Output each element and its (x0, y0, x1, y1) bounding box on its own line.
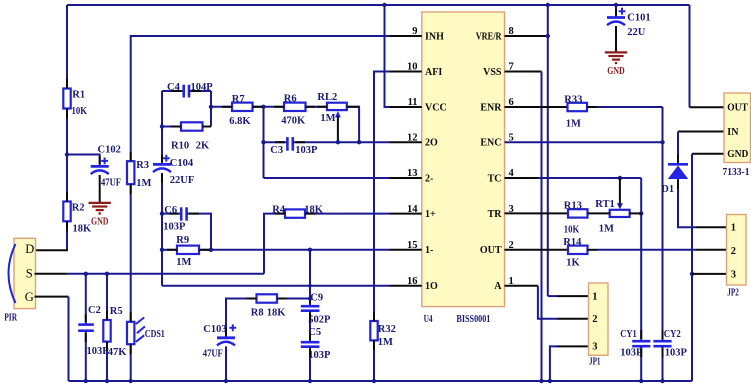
wire S net to R4 corner (68, 273, 264, 275)
svg-text:D: D (25, 242, 34, 256)
plus mark C101 (619, 8, 626, 15)
svg-text:502P: 502P (308, 314, 331, 325)
wire C6 node down to R9 (161, 214, 163, 250)
capacitor C6 (180, 207, 183, 220)
pin 12 stub (390, 141, 422, 143)
ground symbol below C101 (605, 51, 627, 53)
svg-text:VCC: VCC (425, 102, 447, 113)
capacitor CY1 (632, 340, 650, 343)
part 7133-1 regulator box (724, 93, 751, 163)
wire CY2 to ground rail (662, 346, 664, 381)
resistor R4 (285, 209, 305, 217)
svg-text:1M: 1M (176, 257, 191, 268)
wire 7133 OUT stub (690, 106, 725, 108)
svg-text:1O: 1O (425, 281, 438, 292)
svg-text:RT1: RT1 (595, 199, 614, 210)
svg-text:2K: 2K (196, 140, 210, 151)
svg-text:18K: 18K (267, 307, 287, 318)
svg-text:S: S (26, 267, 33, 281)
capacitor C104 (153, 163, 171, 166)
wire CDS1 to ground rail (130, 344, 132, 381)
node VSS ground (539, 379, 543, 383)
svg-text:1-: 1- (425, 245, 433, 256)
svg-text:R33: R33 (564, 94, 582, 105)
node V+ rail tap (546, 3, 550, 7)
svg-text:1M: 1M (599, 223, 614, 234)
svg-text:10: 10 (407, 62, 418, 73)
black component lead stubs overlay (171, 126, 181, 128)
node RT1 right (639, 211, 643, 215)
wire R33 to ENC node (597, 106, 663, 108)
wire R7R6 junction down to C3 (263, 107, 265, 178)
node TC wiper tap (618, 176, 622, 180)
capacitor C4 (182, 85, 185, 98)
node C6 left (160, 211, 164, 215)
node S/C2 (84, 272, 88, 276)
node CY1 ground (639, 379, 643, 383)
svg-text:10K: 10K (72, 106, 88, 117)
svg-text:JP2: JP2 (727, 287, 739, 298)
svg-text:1M: 1M (136, 178, 151, 189)
wire RT1 right terminal (630, 212, 642, 214)
svg-text:2: 2 (731, 246, 736, 257)
wire V+ rail right corner to 7133 OUT (689, 5, 691, 107)
svg-text:1M: 1M (320, 113, 335, 124)
svg-text:2O: 2O (425, 138, 438, 149)
node RL2 wiper / 2O (336, 140, 340, 144)
resistor R10 (181, 122, 203, 130)
wire VCC vertical to pin 11 (385, 5, 391, 107)
resistor R9 (177, 246, 199, 254)
wire R33 right stub (587, 106, 597, 108)
wire R5 to ground rail (106, 342, 108, 381)
wire ENC from pin 5 (505, 141, 663, 143)
svg-text:47K: 47K (108, 347, 128, 358)
node JP2 pin 3 tap (690, 272, 694, 276)
svg-text:IN: IN (727, 127, 739, 138)
wire JP2 pin 3 stub (692, 273, 727, 275)
wire C101 stub (615, 5, 617, 17)
svg-text:R9: R9 (176, 235, 189, 246)
svg-text:VRE/R: VRE/R (476, 31, 502, 42)
resistor R13 (568, 209, 588, 217)
wire C103 to ground rail (225, 346, 227, 381)
wire junction to C104 (161, 127, 163, 165)
wire TC net (538, 177, 641, 179)
wire C102 to ground (99, 175, 101, 202)
svg-text:12: 12 (407, 132, 418, 143)
svg-text:C103: C103 (203, 324, 226, 335)
wire 1- net to pin 15 (211, 249, 390, 251)
wire JP2 pin 1 stub (696, 226, 727, 228)
svg-text:13: 13 (407, 168, 418, 179)
svg-text:1M: 1M (378, 337, 393, 348)
svg-text:103P: 103P (295, 145, 318, 156)
svg-text:D1: D1 (661, 184, 674, 195)
node ENC junction (660, 140, 664, 144)
pin 10 stub (390, 71, 422, 73)
svg-text:ENR: ENR (480, 102, 502, 113)
svg-text:47UF: 47UF (203, 348, 223, 359)
wire R10 right (203, 126, 212, 128)
pin 11 stub (390, 106, 422, 108)
pin 14 stub (390, 213, 422, 215)
svg-text:GND: GND (727, 149, 748, 160)
wire AFI vertical (374, 72, 391, 322)
svg-text:R32: R32 (378, 324, 396, 335)
capacitor C3 (286, 137, 289, 151)
svg-text:CDS1: CDS1 (145, 329, 165, 340)
svg-text:22UF: 22UF (170, 175, 195, 186)
svg-text:R14: R14 (563, 237, 582, 248)
node R32 ground (372, 379, 376, 383)
capacitor C102 (91, 165, 109, 168)
wire 2- net to pin 13 (264, 177, 390, 179)
svg-text:OUT: OUT (727, 103, 748, 114)
wire JP1 pin 1 stub (557, 295, 589, 297)
capacitor C101 (607, 16, 625, 19)
node 1O / C9 crossing (308, 284, 312, 288)
svg-text:ENC: ENC (480, 138, 501, 149)
svg-text:G: G (25, 290, 34, 304)
pin 13 stub (390, 177, 422, 179)
svg-text:INH: INH (425, 31, 444, 42)
svg-text:2: 2 (592, 314, 597, 325)
connector JP1 box (589, 283, 609, 355)
wire TR to R13 (505, 212, 569, 214)
svg-text:C104: C104 (170, 158, 194, 169)
svg-text:14: 14 (407, 204, 418, 215)
wire R4 left corner from S net (264, 214, 285, 274)
svg-text:C102: C102 (98, 144, 121, 155)
wire 7133 IN stub (678, 131, 724, 133)
svg-text:CY1: CY1 (620, 329, 637, 340)
pin 7 stub VSS (505, 71, 542, 73)
wire C2 branch (85, 274, 87, 325)
svg-text:C2: C2 (88, 305, 101, 316)
wire OUT to R14 (505, 249, 569, 251)
svg-text:2-: 2- (425, 173, 433, 184)
wire C4 loop top right (189, 90, 211, 92)
resistor R5 (103, 320, 110, 342)
svg-text:R10: R10 (171, 140, 189, 151)
node R8/C9 (308, 296, 312, 300)
svg-text:103P: 103P (620, 347, 643, 358)
wire GND vertical to ground rail (691, 154, 693, 381)
resistor R32 (370, 321, 377, 340)
node C103 ground (224, 379, 228, 383)
wire PIR S pin (35, 273, 68, 275)
IC U4 BISS0001 body (422, 12, 505, 307)
svg-text:22U: 22U (627, 27, 646, 38)
wire C6 left (162, 213, 181, 215)
wire branch to C102 (67, 155, 100, 167)
resistor R7 (232, 103, 253, 111)
wire R7 to R6 (253, 106, 285, 108)
node R10/C104 junction (160, 124, 164, 128)
svg-text:CY2: CY2 (664, 329, 681, 340)
arc PIR lens (9, 244, 16, 303)
wire second V+ rail to pin 9 (131, 36, 390, 161)
svg-text:R6: R6 (284, 93, 297, 104)
svg-text:C101: C101 (627, 12, 650, 23)
ground symbol below C102 (89, 202, 111, 204)
node C3 left (261, 140, 265, 144)
pin 16 stub (390, 285, 422, 287)
node R9/C6 right (209, 248, 213, 252)
wire R13 to RT1 (588, 212, 610, 214)
wire R2 to D pin corner (66, 221, 68, 250)
capacitor C9 (301, 305, 320, 308)
wire C101 to ground (615, 26, 617, 52)
wiper arrow RL2 (335, 111, 341, 117)
node S/R5 (105, 272, 109, 276)
svg-text:GND: GND (91, 216, 109, 227)
svg-text:16: 16 (407, 276, 418, 287)
node R7/R6/C3 junction (261, 105, 265, 109)
wire R14 to JP2 pin 2 (598, 249, 697, 251)
potentiometer RL2 (327, 103, 347, 110)
wire PIR D pin (35, 249, 68, 251)
node CY2 ground (660, 379, 664, 383)
wire A from pin 1 (505, 285, 538, 287)
wire C104 down to C6 node (161, 173, 163, 214)
svg-text:AFI: AFI (425, 67, 442, 78)
pin 8 stub VRE/R (505, 35, 548, 37)
wire 1- branch down to C9 (309, 250, 311, 306)
wire R6 to RL2 (306, 106, 328, 108)
wire IN down to D1 (677, 132, 679, 165)
pin 15 stub (390, 249, 422, 251)
wire 1+ net to pin 14 (305, 213, 390, 215)
wire bottom ground rail (69, 380, 693, 382)
resistor R6 (284, 103, 306, 111)
wire R1 to junction (66, 109, 68, 202)
svg-text:103P: 103P (308, 350, 331, 361)
svg-text:GND: GND (607, 66, 625, 77)
svg-text:3: 3 (731, 269, 736, 280)
resistor R14 (568, 246, 588, 254)
wire VSS vertical to ground rail (541, 72, 543, 382)
plus mark C104 (163, 155, 170, 162)
part PIR sensor box (14, 238, 36, 308)
wire R10 left (162, 126, 181, 128)
svg-text:R5: R5 (110, 306, 123, 317)
wire R8 left corner (226, 299, 257, 338)
svg-text:RL2: RL2 (317, 92, 337, 103)
wire R32 to ground rail (373, 340, 375, 381)
svg-text:C9: C9 (310, 292, 323, 303)
wire C4 loop right side (210, 91, 212, 127)
wire JP1 pin 2 stub (557, 318, 589, 320)
plus mark C103 (229, 324, 236, 331)
svg-text:18K: 18K (73, 224, 93, 235)
svg-text:VSS: VSS (483, 67, 502, 78)
wire JP1 pin 3 corner (550, 346, 557, 381)
wire C5 to ground rail (309, 347, 311, 381)
wire R9 left (162, 249, 177, 251)
connector JP2 box (727, 215, 747, 286)
wire R8 right (277, 298, 310, 300)
wire TC from pin 4 (505, 177, 539, 179)
wire R3 to CDS1 (130, 184, 132, 322)
node R5 ground (105, 379, 109, 383)
potentiometer RT1 (610, 210, 630, 217)
wire JP1 pin 3 stub (557, 345, 589, 347)
node RL2 right / 2O (357, 140, 361, 144)
wire D1 anode to JP2 pin 1 (678, 179, 696, 227)
wire ENR to R33 (505, 106, 568, 108)
capacitor CY2 (653, 340, 671, 343)
capacitor C103 (217, 336, 235, 339)
node 1- / C9 branch (308, 248, 312, 252)
wire C4 loop top left (162, 90, 183, 92)
wire ENR node down through ENC to CY2 (662, 107, 664, 341)
wire R7 left (211, 106, 232, 108)
diode D1 (668, 163, 688, 166)
node C2 ground (84, 379, 88, 383)
svg-text:3: 3 (592, 342, 597, 353)
resistor R2 (63, 202, 70, 222)
wire A corner to JP1 pin 2 (538, 286, 557, 319)
svg-text:15: 15 (407, 240, 418, 251)
capacitor C2 (78, 323, 94, 326)
svg-text:TC: TC (488, 173, 502, 184)
svg-text:103P: 103P (665, 347, 688, 358)
node C101 V+ tap (614, 3, 618, 7)
photoresistor CDS1 (127, 322, 134, 344)
wire top V+ rail (67, 4, 690, 6)
wire 1O net to pin 16 (162, 285, 390, 287)
plus mark C102 (101, 158, 108, 165)
wire 2O net to pin 12 (293, 141, 390, 143)
resistor R33 (568, 103, 588, 111)
node R9 left (160, 248, 164, 252)
node R7 tap (209, 105, 213, 109)
svg-text:1M: 1M (566, 118, 581, 129)
node V+ / VCC branch (382, 3, 386, 7)
resistor R8 (257, 294, 278, 302)
wire C4 loop left side (161, 91, 163, 127)
svg-text:R13: R13 (564, 200, 582, 211)
node JP1-3 ground (548, 379, 552, 383)
svg-text:PIR: PIR (4, 312, 17, 323)
wire C2 to ground rail (85, 331, 87, 381)
node CDS1 ground (129, 379, 133, 383)
svg-text:OUT: OUT (480, 245, 502, 256)
svg-text:TR: TR (488, 209, 503, 220)
svg-text:R7: R7 (232, 94, 245, 105)
wire C3 left (264, 141, 288, 143)
wire G to ground rail (68, 297, 70, 381)
svg-text:A: A (494, 281, 502, 292)
pin 9 stub (390, 35, 422, 37)
svg-text:103P: 103P (163, 221, 186, 232)
node VRE/R to V+ rail (546, 34, 550, 38)
svg-text:C3: C3 (270, 145, 283, 156)
light arrows CDS1 (136, 317, 145, 342)
wire JP1 pin 1 (548, 295, 557, 297)
svg-text:JP1: JP1 (589, 356, 601, 367)
svg-text:1K: 1K (566, 257, 580, 268)
wire 7133 GND stub (692, 153, 724, 155)
svg-text:1+: 1+ (425, 209, 436, 220)
wire RL2 right terminal (347, 107, 359, 142)
capacitor C5 (301, 341, 320, 344)
svg-text:6.8K: 6.8K (229, 116, 251, 127)
svg-text:103P: 103P (87, 346, 110, 357)
wire R14 right stub (588, 249, 598, 251)
wire PIR G pin (35, 296, 69, 298)
svg-text:10K: 10K (564, 225, 580, 236)
svg-text:1: 1 (592, 291, 597, 302)
wire V+ down to JP1 pin1 (547, 5, 549, 296)
wire R5 branch (106, 274, 108, 320)
svg-text:7133-1: 7133-1 (723, 167, 750, 178)
svg-text:470K: 470K (281, 115, 306, 126)
wire R9 node down to 1O line (161, 250, 163, 286)
node junction R1/R2/C102 (65, 152, 69, 156)
wire JP2 pin 2 stub (696, 249, 727, 251)
svg-text:1: 1 (731, 223, 736, 234)
wire R9 right (199, 249, 211, 251)
svg-text:R8: R8 (251, 307, 264, 318)
svg-text:U4: U4 (424, 314, 434, 325)
wire C6 right corner (187, 214, 211, 250)
svg-text:R3: R3 (136, 160, 149, 171)
resistor R3 (127, 161, 134, 184)
resistor R1 (63, 89, 70, 109)
wiper arrow RT1 (619, 178, 621, 205)
wire TC corner down to RT1 right (640, 178, 642, 341)
svg-text:47UF: 47UF (101, 177, 121, 188)
svg-text:11: 11 (408, 97, 418, 108)
wire left rail down to R1 (66, 5, 68, 89)
svg-text:BISS0001: BISS0001 (456, 314, 490, 325)
wire CY1 to ground rail (640, 346, 642, 381)
svg-text:9: 9 (412, 26, 417, 37)
svg-text:R1: R1 (72, 90, 85, 101)
node C5 ground (308, 379, 312, 383)
svg-text:R2: R2 (72, 202, 85, 213)
wire C9 to C5 (309, 311, 311, 343)
